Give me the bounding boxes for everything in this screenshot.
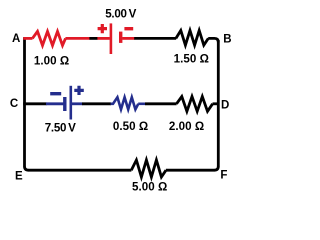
wire: V1 to resistor R2 (black) [134, 37, 176, 40]
svg-text:7.50 V: 7.50 V [45, 121, 76, 134]
battery V2 short plate (negative, blue) [63, 97, 66, 111]
svg-text:5.00 V: 5.00 V [105, 8, 136, 21]
svg-text:B: B [223, 34, 231, 46]
wire: corner at node F (rounded) [214, 166, 218, 170]
battery V1 plus sign [98, 24, 107, 33]
wire: lead into V2 short plate (blue) [46, 102, 64, 105]
resistor R2 1.50 ohm (black zigzag) [176, 31, 208, 46]
wire: node A to resistor R1 (red) [23, 37, 32, 40]
wire: R3 right stub (blue) [138, 103, 145, 106]
svg-text:A: A [12, 33, 20, 45]
resistor R1 1.00 ohm (red zigzag) [32, 31, 65, 45]
battery V1 long plate (positive, red) [110, 23, 113, 54]
wire: V2 to resistor R3 (black) [82, 102, 111, 105]
svg-text:2.00 Ω: 2.00 Ω [169, 120, 204, 133]
wire: R5 to node F (black) [166, 169, 215, 172]
svg-text:1.50 Ω: 1.50 Ω [174, 53, 209, 66]
battery V1 minus sign [124, 27, 133, 30]
battery V2 plus sign [74, 86, 84, 95]
svg-text:C: C [10, 98, 18, 110]
resistor R3 0.50 ohm (blue zigzag) [111, 97, 139, 109]
wire: R2 to node B corner (rounded) [208, 38, 218, 42]
wire: R4 to node D [213, 102, 219, 105]
wire: node C to battery V2 (black) [23, 102, 46, 105]
wire: R1 to battery V1 (black) [89, 37, 97, 40]
resistor R4 2.00 ohm (black zigzag) [177, 97, 213, 112]
svg-text:F: F [220, 170, 227, 182]
wire: corner at node E (rounded) [25, 166, 29, 170]
wire: R1 right lead (red) [65, 37, 89, 40]
wire: V2 right stub (blue) [72, 102, 83, 105]
wire: R3 to resistor R4 (black) [145, 102, 177, 105]
wire: battery V1 left lead (red) [97, 37, 109, 40]
wire: right vertical B-D-F [217, 40, 220, 167]
wire: node E to resistor R5 (black) [28, 169, 131, 172]
svg-text:E: E [15, 170, 23, 182]
wire: battery V1 right stub (red) [122, 37, 134, 40]
resistor R5 5.00 ohm (black zigzag) [131, 160, 166, 177]
svg-text:5.00 Ω: 5.00 Ω [132, 181, 167, 194]
battery V2 minus sign [50, 92, 61, 95]
svg-text:D: D [221, 99, 229, 111]
battery V2 long plate (positive, blue) [70, 86, 73, 120]
wire: left vertical A-C-E [23, 37, 26, 166]
svg-text:0.50 Ω: 0.50 Ω [113, 120, 148, 133]
svg-text:1.00 Ω: 1.00 Ω [34, 55, 69, 68]
battery V1 short plate (negative, red) [119, 32, 122, 43]
